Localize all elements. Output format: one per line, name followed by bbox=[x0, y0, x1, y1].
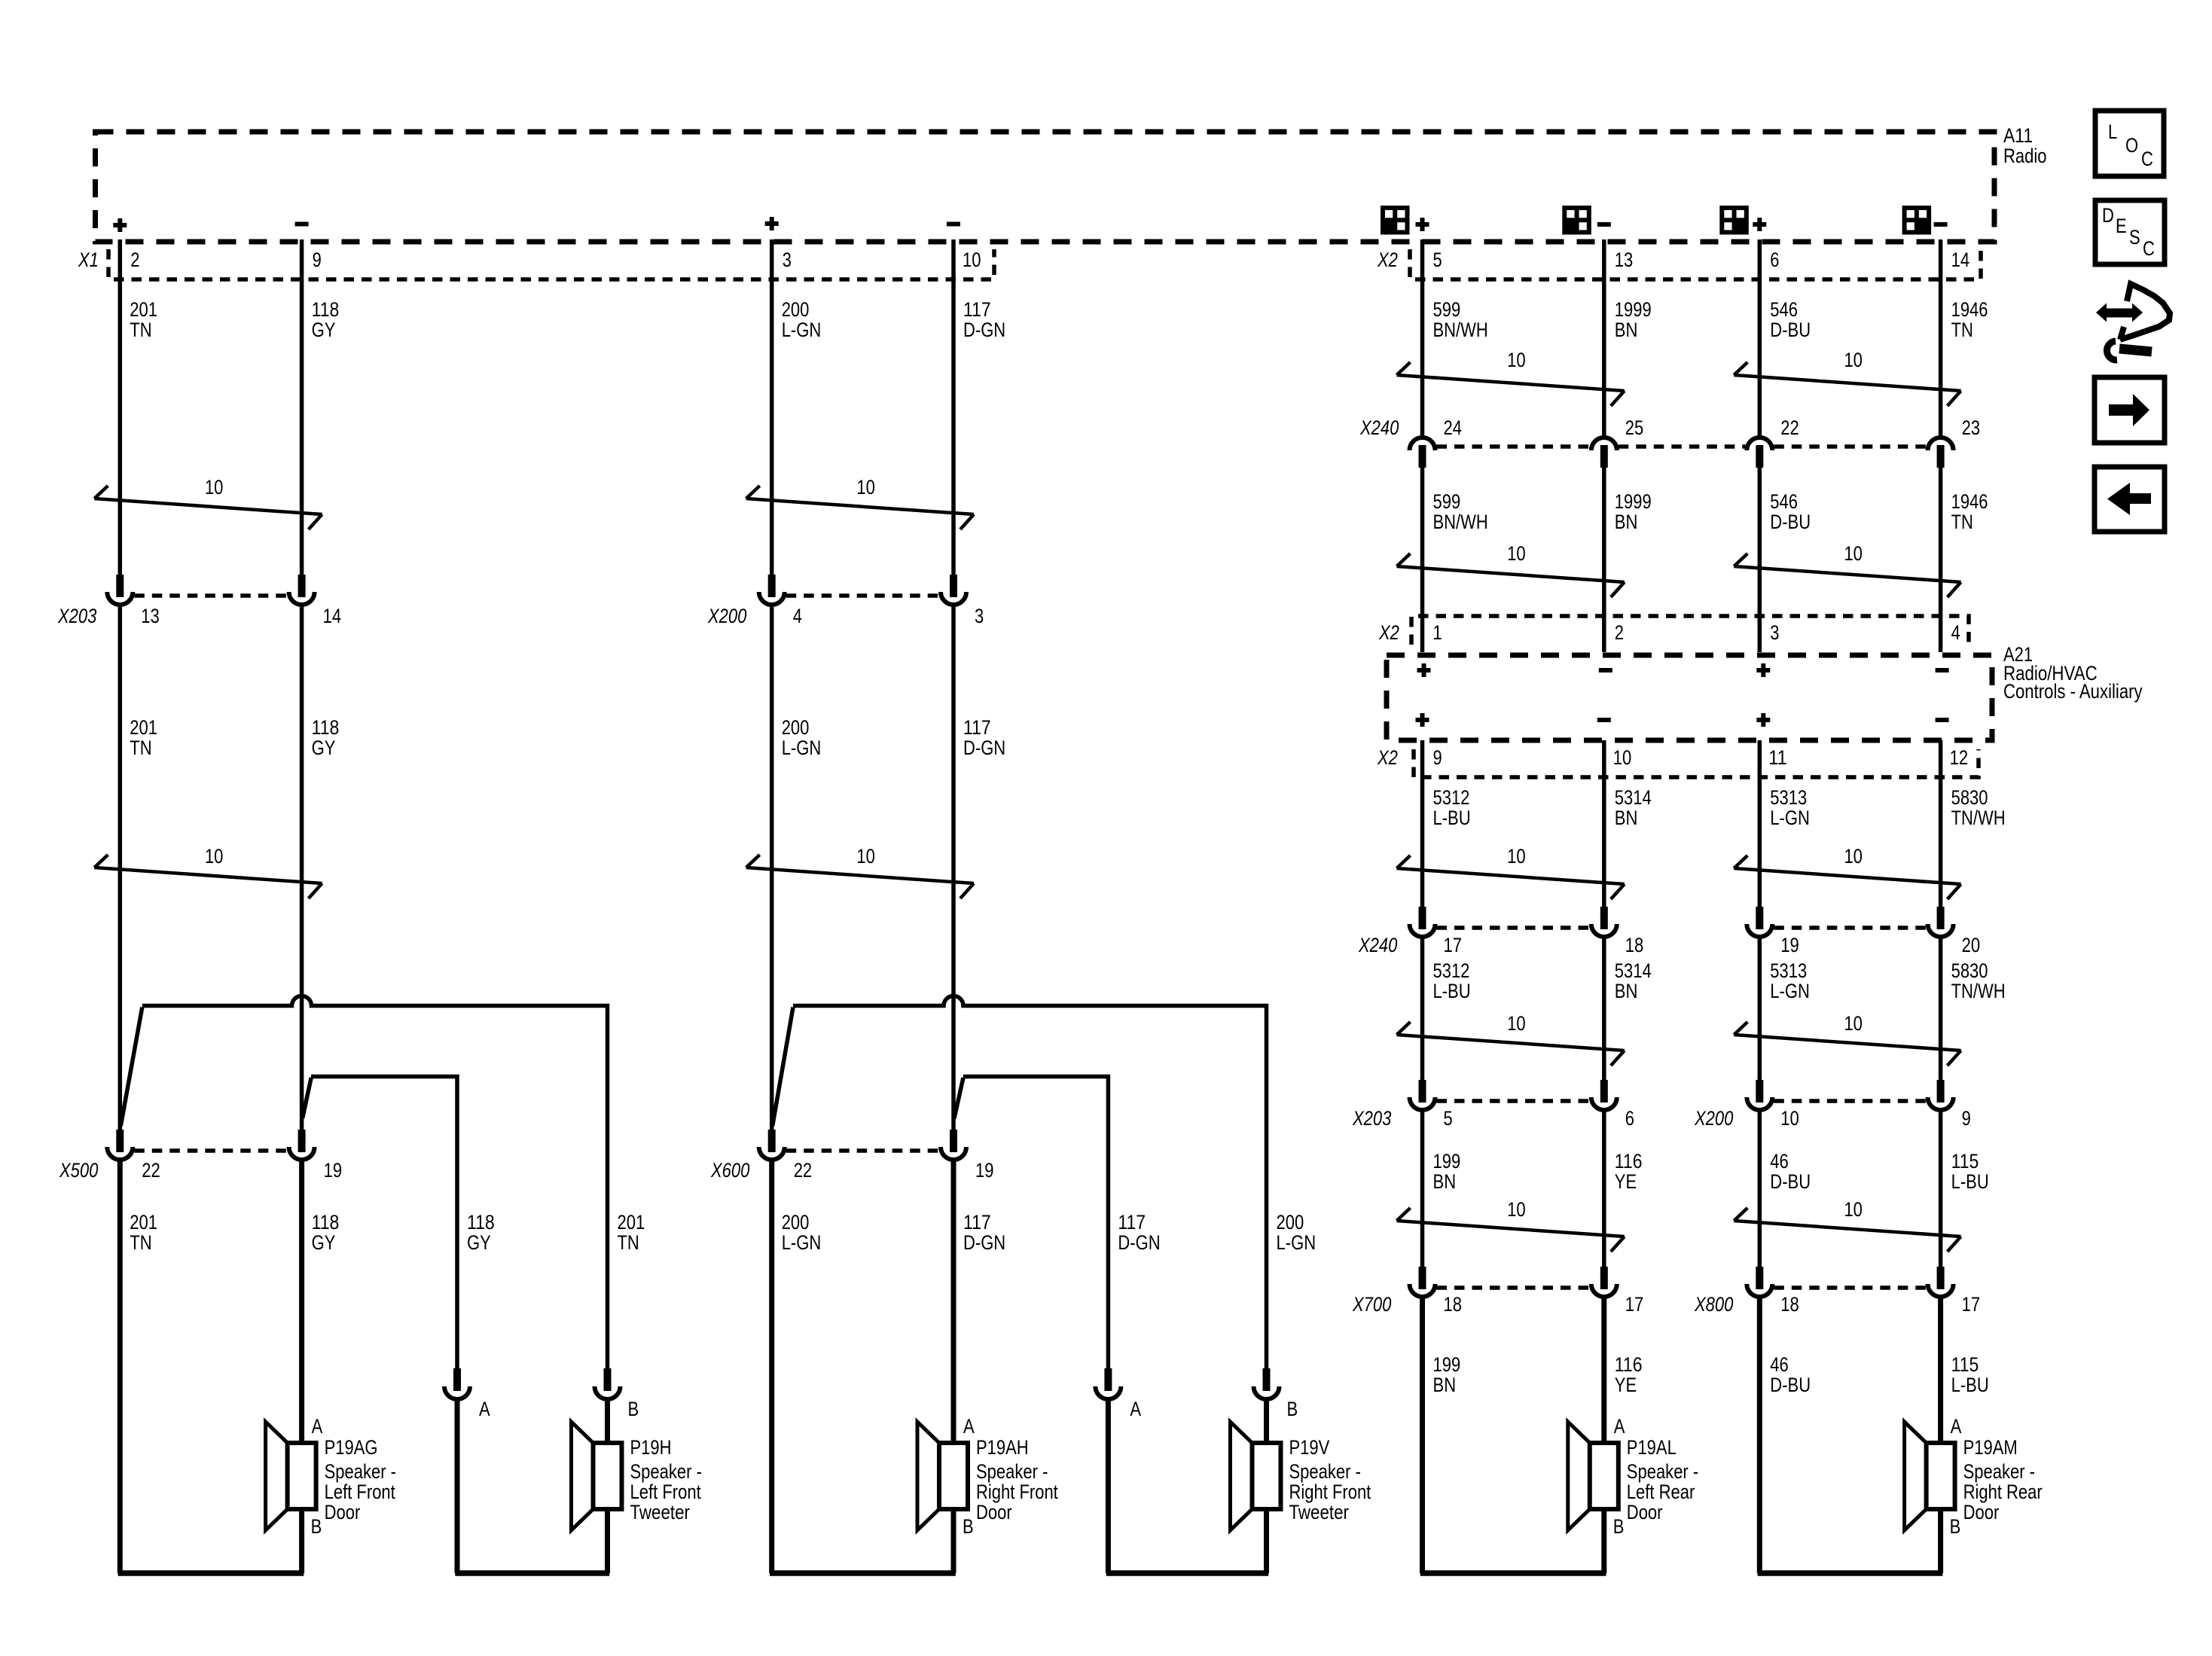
svg-text:P19V: P19V bbox=[1289, 1436, 1330, 1459]
twisted pair symbol 10 bbox=[1397, 542, 1625, 597]
twisted pair symbol 10 bbox=[94, 845, 322, 898]
svg-text:L-BU: L-BU bbox=[1433, 807, 1471, 829]
splice diagonal 201 TN bbox=[121, 1008, 142, 1127]
speaker P19AL Left Rear Door bbox=[1568, 1415, 1698, 1538]
twisted pair symbol 10 bbox=[1397, 1012, 1625, 1066]
− terminal A21 pin10 bbox=[1597, 718, 1611, 722]
svg-text:200: 200 bbox=[782, 1211, 810, 1234]
svg-text:10: 10 bbox=[1844, 542, 1863, 565]
inline terminal A left tweeter bbox=[444, 1368, 470, 1399]
svg-text:BN: BN bbox=[1433, 1374, 1457, 1396]
svg-text:BN: BN bbox=[1615, 807, 1638, 829]
wire 599 BN/WH radio pin5 to X240 bbox=[1420, 239, 1425, 438]
svg-text:200: 200 bbox=[782, 716, 810, 739]
wire 118 GY radio pin9 to X203 bbox=[300, 239, 304, 575]
twisted pair symbol 10 bbox=[1734, 1012, 1960, 1066]
+ terminal radio pin 3 bbox=[765, 217, 779, 230]
connector X240 (pins 24,25,22,23) bbox=[1410, 438, 1954, 468]
svg-text:3: 3 bbox=[783, 249, 792, 271]
wire label 599 BN/WH bbox=[1433, 490, 1488, 533]
svg-text:L-BU: L-BU bbox=[1433, 980, 1471, 1002]
svg-text:X200: X200 bbox=[1694, 1107, 1733, 1130]
wire label 201 TN bbox=[130, 1211, 157, 1254]
wire 117 D-GN terminal A down bbox=[1106, 1399, 1111, 1573]
wire 5312 L-BU X240 to X203 bbox=[1420, 937, 1425, 1080]
svg-text:5: 5 bbox=[1433, 249, 1442, 271]
wire 46 D-BU X200 to X800 bbox=[1758, 1110, 1762, 1267]
A21 label bbox=[2003, 643, 2143, 703]
svg-text:D-BU: D-BU bbox=[1770, 1374, 1811, 1396]
inline terminal B right tweeter bbox=[1254, 1368, 1280, 1399]
svg-text:BN/WH: BN/WH bbox=[1433, 511, 1488, 533]
svg-text:L-GN: L-GN bbox=[1770, 807, 1810, 829]
svg-text:201: 201 bbox=[130, 716, 157, 739]
svg-text:6: 6 bbox=[1625, 1107, 1634, 1130]
connector X600 (pins 22,19) bbox=[759, 1130, 966, 1160]
wire 200 L-GN terminal B to tweeter bbox=[1264, 1399, 1269, 1443]
wire speaker B to loop bbox=[951, 1509, 956, 1573]
svg-text:19: 19 bbox=[975, 1159, 994, 1182]
svg-text:Right Rear: Right Rear bbox=[1963, 1481, 2043, 1503]
wire 115 L-BU X200 to X800 bbox=[1939, 1110, 1943, 1267]
svg-text:10: 10 bbox=[1844, 349, 1863, 371]
svg-text:1999: 1999 bbox=[1615, 490, 1652, 513]
svg-text:4: 4 bbox=[1951, 621, 1960, 644]
svg-text:Door: Door bbox=[325, 1501, 361, 1523]
connector X203 (pins 13,14) bbox=[107, 575, 314, 605]
wire label 200 L-GN bbox=[782, 298, 822, 341]
svg-text:10: 10 bbox=[205, 476, 224, 499]
svg-text:116: 116 bbox=[1615, 1150, 1643, 1173]
svg-text:YE: YE bbox=[1615, 1374, 1637, 1396]
wire label 117 D-GN bbox=[963, 1211, 1005, 1254]
wire label 116 YE bbox=[1615, 1353, 1643, 1396]
svg-text:TN: TN bbox=[130, 737, 151, 759]
svg-text:Door: Door bbox=[976, 1501, 1012, 1523]
wire 118 GY terminal A down bbox=[455, 1399, 460, 1573]
wire 118 GY X203 to X500 bbox=[300, 605, 304, 1130]
wire label 5314 BN bbox=[1615, 959, 1652, 1002]
connector X500 (pins 22,19) bbox=[107, 1130, 314, 1160]
svg-text:13: 13 bbox=[141, 605, 160, 627]
svg-text:46: 46 bbox=[1770, 1150, 1789, 1173]
svg-text:GY: GY bbox=[467, 1231, 491, 1254]
wire label 5312 L-BU bbox=[1433, 786, 1471, 829]
wire label 5830 TN/WH bbox=[1951, 959, 2006, 1002]
wire label 201 TN bbox=[130, 716, 157, 759]
backward reference arrow box bbox=[2095, 467, 2165, 532]
wire label 118 GY bbox=[312, 716, 340, 759]
svg-text:599: 599 bbox=[1433, 298, 1461, 321]
svg-text:118: 118 bbox=[312, 298, 340, 321]
svg-text:Speaker -: Speaker - bbox=[1289, 1460, 1361, 1483]
+ terminal A21 pin3 bbox=[1756, 663, 1770, 677]
svg-text:10: 10 bbox=[856, 845, 875, 868]
svg-text:18: 18 bbox=[1625, 934, 1644, 956]
svg-text:118: 118 bbox=[312, 1211, 340, 1234]
svg-text:546: 546 bbox=[1770, 490, 1798, 513]
svg-text:116: 116 bbox=[1615, 1353, 1643, 1376]
wire label 46 D-BU bbox=[1770, 1150, 1811, 1193]
wire label 1946 TN bbox=[1951, 298, 1988, 341]
− terminal radio pin 9 bbox=[295, 222, 309, 227]
svg-text:A: A bbox=[312, 1415, 323, 1438]
radio A11 dashed box bbox=[96, 132, 1995, 242]
svg-text:D-GN: D-GN bbox=[963, 1231, 1005, 1254]
svg-text:A: A bbox=[963, 1415, 975, 1438]
− terminal A21 pin12 bbox=[1936, 718, 1949, 722]
connector X800 (pins 18,17) bbox=[1747, 1267, 1953, 1297]
svg-text:X700: X700 bbox=[1352, 1293, 1391, 1316]
svg-text:L-BU: L-BU bbox=[1951, 1170, 1989, 1193]
svg-text:X600: X600 bbox=[710, 1159, 749, 1182]
wire tweeter bottom to loop bbox=[1264, 1509, 1269, 1573]
svg-text:X203: X203 bbox=[57, 605, 96, 627]
A11 Radio label bbox=[2003, 124, 2047, 167]
svg-text:X2: X2 bbox=[1378, 621, 1399, 644]
svg-text:5313: 5313 bbox=[1770, 786, 1807, 809]
connector X200 (pins 4,3) bbox=[759, 575, 966, 605]
svg-text:25: 25 bbox=[1625, 416, 1644, 439]
svg-text:201: 201 bbox=[130, 298, 157, 321]
wire label 115 L-BU bbox=[1951, 1353, 1989, 1396]
twisted-pair marker square pin 5 bbox=[1383, 208, 1408, 233]
svg-text:X2: X2 bbox=[1377, 746, 1398, 769]
svg-text:D-GN: D-GN bbox=[963, 319, 1005, 341]
splice diagonal 117 D-GN bbox=[954, 1078, 963, 1118]
wire 5830 TN/WH X240 to X200 bbox=[1939, 937, 1943, 1080]
svg-text:23: 23 bbox=[1962, 416, 1981, 439]
wire label 599 BN/WH bbox=[1433, 298, 1488, 341]
wire 5314 BN X240 to X203 bbox=[1602, 937, 1606, 1080]
+ terminal radio pin 5 bbox=[1416, 218, 1429, 231]
svg-text:200: 200 bbox=[1277, 1211, 1304, 1234]
svg-text:TN: TN bbox=[130, 1231, 151, 1254]
svg-text:4: 4 bbox=[793, 605, 802, 627]
svg-text:1946: 1946 bbox=[1951, 298, 1988, 321]
return loop right tweeter bbox=[1106, 1570, 1269, 1576]
twisted pair symbol 10 bbox=[1734, 845, 1960, 899]
wire label 117 D-GN bbox=[963, 298, 1005, 341]
svg-text:D-BU: D-BU bbox=[1770, 511, 1811, 533]
wire label 1946 TN bbox=[1951, 490, 1988, 533]
wire speaker B to loop bbox=[299, 1509, 304, 1573]
wire 199 BN X700 to loop bbox=[1420, 1297, 1425, 1573]
splice diagonal 200 L-GN bbox=[773, 1008, 793, 1127]
svg-text:A: A bbox=[1130, 1398, 1141, 1420]
svg-text:14: 14 bbox=[1951, 249, 1970, 271]
svg-text:Right Front: Right Front bbox=[1289, 1481, 1371, 1503]
wire label 5313 L-GN bbox=[1770, 959, 1810, 1002]
wire 199 BN X203 to X700 bbox=[1420, 1110, 1425, 1267]
svg-text:5314: 5314 bbox=[1615, 786, 1652, 809]
svg-text:10: 10 bbox=[1613, 746, 1632, 769]
wire label 200 L-GN tweeter bbox=[1277, 1211, 1317, 1254]
svg-text:BN: BN bbox=[1615, 511, 1638, 533]
svg-text:X2: X2 bbox=[1377, 249, 1398, 271]
wire 599 BN/WH X240 to A21 bbox=[1420, 468, 1425, 652]
svg-text:22: 22 bbox=[1780, 416, 1799, 439]
svg-text:A: A bbox=[1614, 1415, 1625, 1438]
inline terminal A right tweeter bbox=[1095, 1368, 1121, 1399]
wire label 5313 L-GN bbox=[1770, 786, 1810, 829]
svg-text:17: 17 bbox=[1625, 1293, 1644, 1316]
svg-text:10: 10 bbox=[1844, 1198, 1863, 1221]
svg-text:P19H: P19H bbox=[630, 1436, 672, 1459]
svg-text:10: 10 bbox=[963, 249, 981, 271]
svg-text:5830: 5830 bbox=[1951, 786, 1988, 809]
return loop right rear speaker bbox=[1758, 1570, 1943, 1576]
svg-text:115: 115 bbox=[1951, 1150, 1979, 1173]
wire 201 TN X203 to X500 bbox=[118, 605, 123, 1130]
svg-text:A: A bbox=[479, 1398, 490, 1420]
wire 546 D-BU X240 to A21 bbox=[1758, 468, 1762, 652]
wire speaker B to loop bbox=[1938, 1509, 1943, 1573]
wire label 5314 BN bbox=[1615, 786, 1652, 829]
twisted pair symbol 10 bbox=[746, 476, 974, 529]
wire 1999 BN radio pin13 to X240 bbox=[1602, 239, 1606, 438]
wire 5313 L-GN X240 to X200 bbox=[1758, 937, 1762, 1080]
forward reference arrow box bbox=[2095, 377, 2165, 443]
splice diagonal 118 GY bbox=[303, 1078, 312, 1118]
svg-text:546: 546 bbox=[1770, 298, 1798, 321]
svg-text:5312: 5312 bbox=[1433, 959, 1470, 982]
svg-text:A11: A11 bbox=[2003, 124, 2033, 147]
svg-text:17: 17 bbox=[1962, 1293, 1981, 1316]
wire label 199 BN bbox=[1433, 1353, 1461, 1396]
ground-return loop left door speaker bbox=[118, 1570, 304, 1576]
wire label 201 TN tweeter bbox=[618, 1211, 645, 1254]
speaker P19AH Right Front Door bbox=[917, 1415, 1058, 1538]
svg-text:TN/WH: TN/WH bbox=[1951, 807, 2006, 829]
svg-text:10: 10 bbox=[1844, 1012, 1863, 1035]
svg-text:C: C bbox=[2143, 237, 2155, 260]
wire 5312 L-BU A21 to X240 bbox=[1420, 740, 1425, 907]
wire 46 D-BU X800 to loop bbox=[1757, 1297, 1762, 1573]
svg-text:3: 3 bbox=[975, 605, 984, 627]
svg-text:201: 201 bbox=[130, 1211, 157, 1234]
+ terminal A21 pin11 bbox=[1756, 713, 1770, 727]
wire 1946 TN radio pin14 to X240 bbox=[1939, 239, 1943, 438]
svg-text:B: B bbox=[628, 1398, 639, 1420]
wire 117 D-GN X600 to speaker A bbox=[951, 1160, 956, 1443]
wire label 546 D-BU bbox=[1770, 490, 1811, 533]
wire speaker B to loop bbox=[1601, 1509, 1606, 1573]
twisted pair symbol 10 bbox=[1397, 349, 1625, 406]
return loop right door speaker bbox=[770, 1570, 956, 1576]
svg-text:46: 46 bbox=[1770, 1353, 1789, 1376]
twisted pair symbol 10 bbox=[1734, 1198, 1960, 1252]
svg-text:200: 200 bbox=[782, 298, 810, 321]
svg-text:L-GN: L-GN bbox=[1277, 1231, 1317, 1254]
svg-text:1946: 1946 bbox=[1951, 490, 1988, 513]
svg-text:Left Front: Left Front bbox=[325, 1481, 396, 1503]
wire label 201 TN bbox=[130, 298, 157, 341]
wire label 118 GY tweeter bbox=[467, 1211, 495, 1254]
svg-text:B: B bbox=[311, 1515, 322, 1538]
svg-text:B: B bbox=[963, 1515, 974, 1538]
splice branch rail to right tweeter B bbox=[793, 996, 1267, 1369]
svg-text:9: 9 bbox=[313, 249, 322, 271]
svg-text:19: 19 bbox=[324, 1159, 343, 1182]
svg-text:A: A bbox=[1951, 1415, 1962, 1438]
twisted-pair marker square pin 6 bbox=[1722, 208, 1747, 233]
twisted pair symbol 10 bbox=[1734, 542, 1960, 597]
wire label 118 GY bbox=[312, 298, 340, 341]
svg-text:22: 22 bbox=[142, 1159, 160, 1182]
module A21 Radio/HVAC Controls dashed box bbox=[1387, 655, 1992, 740]
+ terminal radio pin 6 bbox=[1753, 218, 1766, 231]
svg-text:BN: BN bbox=[1615, 319, 1638, 341]
wire label 5830 TN/WH bbox=[1951, 786, 2006, 829]
− terminal radio pin 14 bbox=[1934, 222, 1948, 227]
svg-text:115: 115 bbox=[1951, 1353, 1979, 1376]
wire 200 L-GN X200 to X600 bbox=[770, 605, 774, 1130]
svg-text:10: 10 bbox=[1507, 542, 1526, 565]
wire 1999 BN X240 to A21 bbox=[1602, 468, 1606, 652]
svg-text:GY: GY bbox=[312, 319, 336, 341]
+ terminal A21 pin1 bbox=[1417, 663, 1431, 677]
+ terminal A21 pin9 bbox=[1416, 713, 1429, 727]
wire label 117 D-GN bbox=[963, 716, 1005, 759]
svg-text:10: 10 bbox=[856, 476, 875, 499]
wire label 1999 BN bbox=[1615, 298, 1652, 341]
svg-text:D-BU: D-BU bbox=[1770, 319, 1811, 341]
svg-text:117: 117 bbox=[1118, 1211, 1146, 1234]
wire 115 L-BU X800 to speaker A bbox=[1938, 1297, 1943, 1443]
− terminal radio pin 13 bbox=[1597, 222, 1611, 227]
svg-text:10: 10 bbox=[1507, 845, 1526, 868]
svg-text:5830: 5830 bbox=[1951, 959, 1988, 982]
svg-text:Door: Door bbox=[1627, 1501, 1663, 1523]
svg-text:B: B bbox=[1613, 1515, 1625, 1538]
svg-text:12: 12 bbox=[1950, 746, 1969, 769]
inline terminal B left tweeter bbox=[595, 1368, 621, 1399]
twisted pair symbol 10 bbox=[1397, 1198, 1625, 1252]
svg-text:TN: TN bbox=[1951, 319, 1973, 341]
svg-text:TN: TN bbox=[130, 319, 151, 341]
connector X2 A21 top (pins 1,2,3,4) bbox=[1411, 616, 1969, 645]
svg-text:1: 1 bbox=[1433, 621, 1442, 644]
svg-text:22: 22 bbox=[794, 1159, 813, 1182]
svg-text:S: S bbox=[2129, 226, 2140, 249]
svg-text:D: D bbox=[2102, 204, 2114, 227]
svg-text:17: 17 bbox=[1444, 934, 1463, 956]
svg-text:3: 3 bbox=[1770, 621, 1779, 644]
service info icon (arrows and wrench) bbox=[2096, 284, 2170, 360]
svg-text:L-BU: L-BU bbox=[1951, 1374, 1989, 1396]
wire 5314 BN A21 to X240 bbox=[1602, 740, 1606, 907]
− terminal A21 pin4 bbox=[1936, 668, 1949, 672]
twisted pair symbol 10 bbox=[1734, 349, 1960, 406]
svg-text:599: 599 bbox=[1433, 490, 1461, 513]
wire label 546 D-BU bbox=[1770, 298, 1811, 341]
svg-text:Speaker -: Speaker - bbox=[1627, 1460, 1698, 1483]
wire label 118 GY bbox=[312, 1211, 340, 1254]
wire label 200 L-GN bbox=[782, 716, 822, 759]
svg-text:117: 117 bbox=[963, 1211, 991, 1234]
svg-text:Right Front: Right Front bbox=[976, 1481, 1058, 1503]
svg-text:117: 117 bbox=[963, 298, 991, 321]
LOC reference box bbox=[2095, 111, 2164, 176]
connector X700 (pins 18,17) bbox=[1410, 1267, 1617, 1297]
svg-text:Speaker -: Speaker - bbox=[630, 1460, 702, 1483]
svg-text:10: 10 bbox=[1507, 1198, 1526, 1221]
wire label 46 D-BU bbox=[1770, 1353, 1811, 1396]
svg-text:5313: 5313 bbox=[1770, 959, 1807, 982]
svg-text:Speaker -: Speaker - bbox=[325, 1460, 396, 1483]
wire 546 D-BU radio pin6 to X240 bbox=[1758, 239, 1762, 438]
twisted-pair marker square pin 14 bbox=[1905, 208, 1930, 233]
svg-text:BN/WH: BN/WH bbox=[1433, 319, 1488, 341]
svg-text:L: L bbox=[2108, 120, 2117, 143]
wire label 199 BN bbox=[1433, 1150, 1461, 1193]
svg-text:10: 10 bbox=[1507, 1012, 1526, 1035]
svg-text:X800: X800 bbox=[1694, 1293, 1733, 1316]
twisted pair symbol 10 bbox=[746, 845, 974, 898]
speaker P19AG Left Front Door bbox=[266, 1415, 396, 1538]
svg-text:L-GN: L-GN bbox=[782, 319, 822, 341]
wire tweeter bottom to loop bbox=[605, 1509, 610, 1573]
wire 5313 L-GN A21 to X240 bbox=[1758, 740, 1762, 907]
svg-text:10: 10 bbox=[1780, 1107, 1799, 1130]
wire 201 TN radio pin2 to X203 bbox=[118, 239, 123, 575]
svg-text:BN: BN bbox=[1433, 1170, 1457, 1193]
svg-text:P19AL: P19AL bbox=[1627, 1436, 1677, 1459]
wire 200 L-GN radio pin3 to X200 bbox=[770, 239, 774, 575]
svg-text:1999: 1999 bbox=[1615, 298, 1652, 321]
wire 118 GY X500 to speaker A bbox=[299, 1160, 304, 1443]
return loop left tweeter bbox=[455, 1570, 609, 1576]
return loop left rear speaker bbox=[1420, 1570, 1606, 1576]
svg-text:9: 9 bbox=[1962, 1107, 1971, 1130]
svg-text:117: 117 bbox=[963, 716, 991, 739]
wire label 115 L-BU bbox=[1951, 1150, 1989, 1193]
wire 200 L-GN X600 to splice loop bbox=[769, 1160, 774, 1573]
svg-text:10: 10 bbox=[1844, 845, 1863, 868]
speaker P19H Left Front Tweeter bbox=[572, 1422, 702, 1530]
svg-text:YE: YE bbox=[1615, 1170, 1637, 1193]
svg-text:TN: TN bbox=[1951, 511, 1973, 533]
svg-text:20: 20 bbox=[1962, 934, 1981, 956]
− terminal radio pin 10 bbox=[947, 222, 960, 227]
svg-text:199: 199 bbox=[1433, 1353, 1461, 1376]
svg-text:Left Rear: Left Rear bbox=[1627, 1481, 1695, 1503]
twisted-pair marker square pin 13 bbox=[1564, 208, 1589, 233]
svg-text:201: 201 bbox=[618, 1211, 645, 1234]
svg-text:TN: TN bbox=[618, 1231, 639, 1254]
twisted pair symbol 10 bbox=[94, 476, 322, 529]
svg-text:Tweeter: Tweeter bbox=[630, 1501, 691, 1523]
svg-text:Door: Door bbox=[1963, 1501, 2000, 1523]
splice branch rail to left tweeter A bbox=[311, 1077, 457, 1369]
svg-text:GY: GY bbox=[312, 737, 336, 759]
svg-text:Speaker -: Speaker - bbox=[976, 1460, 1048, 1483]
svg-text:Left Front: Left Front bbox=[630, 1481, 702, 1503]
wire 201 TN X500 to splice loop bbox=[117, 1160, 123, 1573]
svg-text:2: 2 bbox=[130, 249, 139, 271]
svg-text:X1: X1 bbox=[78, 249, 99, 271]
speaker P19AM Right Rear Door bbox=[1905, 1415, 2043, 1538]
svg-text:2: 2 bbox=[1615, 621, 1624, 644]
svg-text:118: 118 bbox=[467, 1211, 495, 1234]
wire label 200 L-GN bbox=[782, 1211, 822, 1254]
svg-text:D-GN: D-GN bbox=[1118, 1231, 1160, 1254]
svg-text:L-GN: L-GN bbox=[782, 737, 822, 759]
svg-text:B: B bbox=[1950, 1515, 1961, 1538]
+ terminal radio pin 2 bbox=[113, 218, 127, 232]
svg-text:E: E bbox=[2116, 215, 2127, 237]
